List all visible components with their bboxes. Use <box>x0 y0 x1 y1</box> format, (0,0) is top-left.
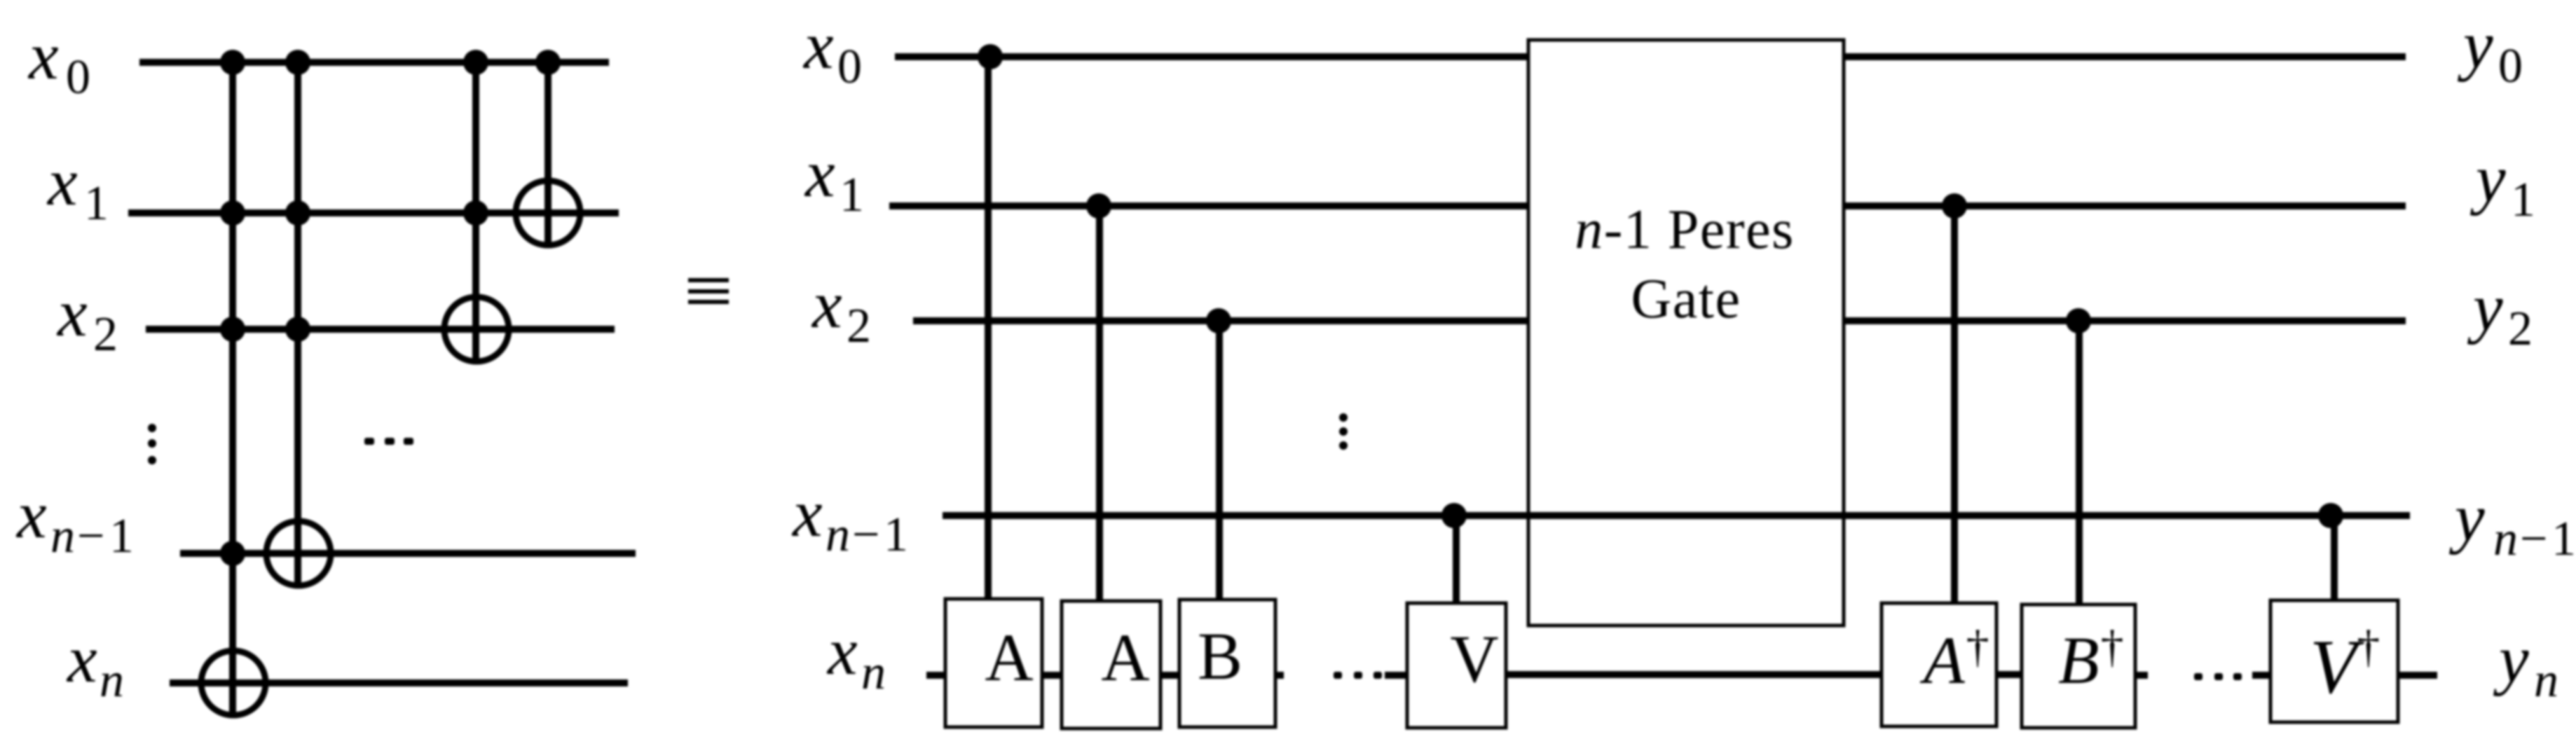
svg-text:2: 2 <box>2508 302 2533 356</box>
svg-text:n: n <box>2534 654 2558 707</box>
svg-text:A: A <box>985 620 1033 695</box>
control line col2 left <box>294 62 301 586</box>
gate box V <box>1407 603 1506 728</box>
control dot c4 x0 <box>535 50 561 75</box>
horizontal ellipsis left circuit <box>364 438 374 445</box>
control dot xn-1 right <box>1441 503 1467 528</box>
wire x1-y1 right (before Peres) <box>889 202 1528 209</box>
svg-text:n: n <box>2493 512 2518 566</box>
control line to B <box>1216 321 1223 601</box>
horizontal ellipsis xn wire (left group) <box>1334 672 1342 679</box>
control line to V <box>1453 516 1460 605</box>
gate box A1 <box>945 599 1042 727</box>
wire A to A <box>1041 672 1063 679</box>
control line col4 left <box>544 62 551 245</box>
gate box A2 <box>1062 601 1160 728</box>
wire x1-y1 right (after Peres) <box>1844 202 2406 209</box>
svg-text:n: n <box>50 509 75 563</box>
wire dots to Vdag <box>2252 672 2272 679</box>
wire x0 left <box>139 59 609 66</box>
svg-text:−: − <box>77 509 104 563</box>
wire B stub <box>1275 672 1284 679</box>
control dot c2 x0 <box>285 50 310 75</box>
wire dots to V <box>1385 672 1409 679</box>
vertical ellipsis right circuit <box>1339 413 1348 422</box>
svg-text:n: n <box>100 654 124 707</box>
svg-text:B: B <box>1198 619 1242 693</box>
svg-text:x: x <box>66 621 97 696</box>
control dot y2 right <box>2066 308 2091 333</box>
horizontal ellipsis xn wire (right group) <box>2194 673 2202 680</box>
gate box B-dagger <box>2022 605 2135 728</box>
svg-text:1: 1 <box>2551 512 2576 566</box>
wire x2 left <box>146 326 615 333</box>
control dot c2 x1 <box>285 200 310 226</box>
svg-text:1: 1 <box>84 177 109 230</box>
control line col3 left <box>472 62 479 361</box>
svg-text:n: n <box>825 508 850 562</box>
gate box B <box>1179 600 1275 727</box>
control dot y1 right <box>1942 193 1967 219</box>
svg-text:n: n <box>861 646 886 700</box>
control line to Adag <box>1951 206 1958 605</box>
svg-text:0: 0 <box>837 40 862 94</box>
control dot c3 x0 <box>463 50 488 75</box>
svg-text:x: x <box>804 136 835 211</box>
control dot c1 x1 <box>220 200 245 226</box>
wire x0-y0 right (after Peres) <box>1844 53 2406 60</box>
wire Bdag stub <box>2135 672 2148 679</box>
svg-text:2: 2 <box>847 299 871 353</box>
n-1 Peres Gate box <box>1528 40 1844 626</box>
gate box A-dagger <box>1882 603 1996 726</box>
control dot yn-1 right <box>2318 503 2343 528</box>
svg-text:x: x <box>826 614 858 689</box>
equivalence symbol <box>688 278 729 282</box>
control dot c1 xn-1 <box>220 541 245 566</box>
svg-text:−: − <box>2520 512 2547 566</box>
svg-text:V: V <box>1450 621 1498 696</box>
wire xn-1:yn-1 right (through Peres) <box>943 512 2410 519</box>
control line to Bdag <box>2076 321 2083 606</box>
wire x2-y2 right (after Peres) <box>1844 317 2406 324</box>
control line col1 left <box>229 62 236 715</box>
svg-text:x: x <box>56 275 88 350</box>
svg-text:0: 0 <box>2498 39 2523 93</box>
wire Vdag to yn <box>2397 672 2437 679</box>
wire xn stub to A <box>926 672 947 679</box>
wire xn left <box>170 679 628 686</box>
wire V to Adag <box>1506 671 1883 678</box>
control line to A2 <box>1096 206 1103 602</box>
svg-text:x: x <box>802 8 834 83</box>
svg-text:0: 0 <box>66 50 90 104</box>
svg-text:2: 2 <box>93 308 118 361</box>
control dot x0 right <box>978 44 1003 69</box>
CNOT target on xn left <box>201 651 266 715</box>
wire x2-y2 right (before Peres) <box>913 317 1528 324</box>
control line to A1 <box>985 57 992 600</box>
svg-text:x: x <box>27 18 59 93</box>
svg-text:x: x <box>791 476 823 551</box>
svg-text:A: A <box>1101 620 1149 695</box>
control dot c3 x1 <box>463 200 488 226</box>
wire x0-y0 right (before Peres) <box>895 53 1528 60</box>
svg-text:x: x <box>46 144 78 219</box>
svg-text:1: 1 <box>2511 173 2535 227</box>
svg-text:Gate: Gate <box>1631 268 1741 330</box>
wire A to B <box>1159 672 1181 679</box>
svg-text:−: − <box>852 508 879 562</box>
svg-text:1: 1 <box>840 168 864 222</box>
wire x1 left <box>128 209 619 216</box>
svg-text:1: 1 <box>109 509 134 563</box>
CNOT target on x2 left <box>444 297 509 361</box>
svg-text:n-1 Peres: n-1 Peres <box>1575 199 1794 261</box>
svg-text:x: x <box>15 477 47 552</box>
control dot x1 right <box>1086 193 1111 219</box>
control dot c1 x0 <box>220 50 245 75</box>
CNOT target on x1 left <box>516 181 580 245</box>
svg-text:x: x <box>811 267 842 342</box>
CNOT target on xn-1 left <box>266 521 331 586</box>
wire xn-1 left <box>180 550 636 557</box>
control dot x2 right <box>1206 308 1231 333</box>
gate box V-dagger <box>2270 600 2398 722</box>
vertical ellipsis left circuit <box>148 424 156 432</box>
control dot c2 x2 <box>285 317 310 342</box>
svg-text:1: 1 <box>884 508 908 562</box>
wire Adag to Bdag <box>1996 671 2022 678</box>
control line to Vdag <box>2331 516 2338 602</box>
control dot c1 x2 <box>220 317 245 342</box>
